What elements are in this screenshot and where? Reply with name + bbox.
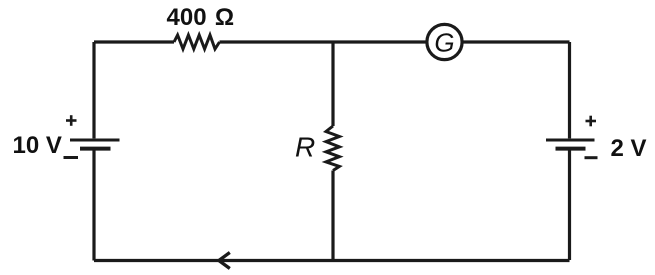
svg-text:G: G xyxy=(434,28,454,58)
svg-text:10 V: 10 V xyxy=(13,132,62,159)
svg-text:R: R xyxy=(295,132,315,163)
svg-text:Ω: Ω xyxy=(215,4,234,31)
svg-text:400: 400 xyxy=(167,4,207,31)
svg-text:2 V: 2 V xyxy=(611,135,647,162)
